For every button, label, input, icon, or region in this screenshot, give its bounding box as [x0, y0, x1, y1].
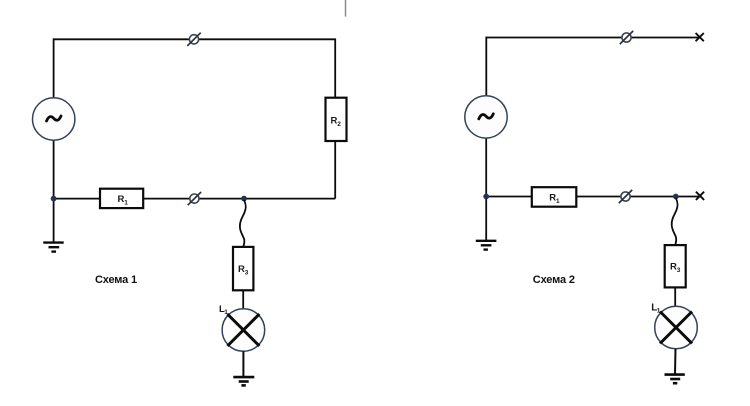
svg-text:Схема 1: Схема 1: [95, 274, 137, 286]
switch S2 on bottom rail: [188, 192, 201, 205]
wire top (right circuit): [486, 37, 699, 39]
wire left vertical bottom (right source to ground): [485, 138, 487, 241]
ground under source (right): [476, 241, 497, 250]
label L1 (right lamp): [651, 303, 661, 315]
wire lamp to ground (right): [674, 349, 677, 375]
ground under lamp (right): [665, 375, 685, 384]
label L1 (left lamp): [219, 304, 228, 316]
resistor R1 (right): [532, 187, 577, 207]
wire bottom rail (right circuit): [486, 196, 700, 198]
node at lamp branch junction: [241, 196, 247, 202]
lamp L1 (right): [655, 306, 698, 349]
AC source G2: [465, 96, 507, 138]
svg-text:1: 1: [657, 308, 661, 315]
svg-text:1: 1: [224, 309, 228, 316]
wire left vertical top (right source to top rail): [485, 37, 487, 97]
svg-text:3: 3: [677, 267, 681, 274]
switch S3 on right top rail: [620, 31, 633, 44]
terminal X bottom right: [696, 192, 704, 200]
switch S4 on right bottom rail: [619, 190, 632, 203]
wire left vertical top (source to top rail): [53, 38, 55, 98]
wire top (left circuit): [54, 38, 336, 40]
resistor R1: [100, 189, 143, 208]
resistor R2: [326, 98, 347, 141]
wavy wire to R3: [240, 200, 246, 247]
AC source G1: [33, 98, 75, 140]
wire bottom rail (left circuit): [54, 198, 336, 200]
wire right vertical top (top rail to R2): [334, 38, 336, 98]
wire lamp to ground: [242, 351, 244, 377]
node at right source junction: [483, 194, 489, 200]
cursor artifact top center: [345, 0, 347, 17]
svg-text:Схема 2: Схема 2: [533, 274, 575, 286]
wavy wire to R3 (right): [672, 198, 678, 245]
lamp L1: [222, 309, 265, 352]
switch S1 on top rail: [187, 33, 200, 46]
resistor R3 (right): [665, 245, 686, 287]
wire right vertical bottom (R2 to bottom rail): [334, 141, 336, 199]
svg-text:1: 1: [124, 199, 128, 206]
node at source / ground junction: [51, 196, 57, 202]
terminal X top right: [696, 33, 704, 41]
wire R3 to lamp (right): [674, 287, 676, 307]
svg-text:3: 3: [245, 269, 249, 276]
ground under lamp (left): [233, 377, 254, 385]
svg-text:2: 2: [337, 121, 341, 128]
resistor R3: [233, 247, 253, 290]
node at right lamp branch junction: [673, 194, 679, 200]
wire R3 to lamp: [242, 290, 244, 309]
svg-text:1: 1: [556, 198, 560, 205]
wire left vertical bottom (source to ground): [53, 140, 55, 243]
ground under source (left): [43, 243, 63, 252]
